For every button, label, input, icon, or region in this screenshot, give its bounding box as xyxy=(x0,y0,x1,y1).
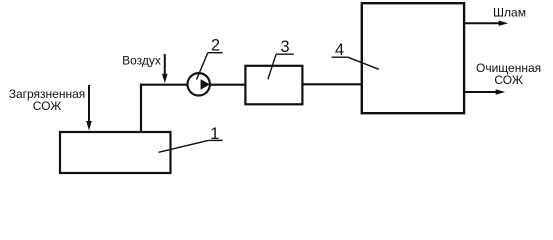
label 1 xyxy=(159,125,223,153)
wire: pipe apparatus 3 to apparatus 4 xyxy=(302,83,362,85)
pump 2 (circle with triangle) xyxy=(188,73,210,95)
label 3 xyxy=(268,38,294,80)
svg-text:СОЖ: СОЖ xyxy=(33,99,62,113)
wire: horizontal pipe corner to pump 2 xyxy=(140,84,188,86)
svg-text:Шлам: Шлам xyxy=(493,6,526,20)
tank 1 (settling tank) xyxy=(60,132,171,173)
svg-text:4: 4 xyxy=(335,41,344,59)
wire: pipe pump 2 to apparatus 3 xyxy=(210,84,246,86)
svg-text:3: 3 xyxy=(280,38,289,56)
svg-text:2: 2 xyxy=(211,36,220,54)
svg-text:СОЖ: СОЖ xyxy=(494,73,523,87)
apparatus 4 (flotator) xyxy=(362,3,464,113)
arrow: sludge out of apparatus 4 xyxy=(464,21,508,26)
label 2 xyxy=(197,36,223,79)
arrow: cleaned coolant out of apparatus 4 xyxy=(464,89,505,94)
label 4 xyxy=(332,41,379,69)
apparatus 3 xyxy=(245,66,302,105)
svg-text:Воздух: Воздух xyxy=(122,53,161,67)
arrow: air into pipe xyxy=(162,54,168,83)
wire: vertical pipe from tank 1 up to air line xyxy=(140,84,142,133)
arrow: contaminated coolant into tank 1 xyxy=(86,85,92,131)
